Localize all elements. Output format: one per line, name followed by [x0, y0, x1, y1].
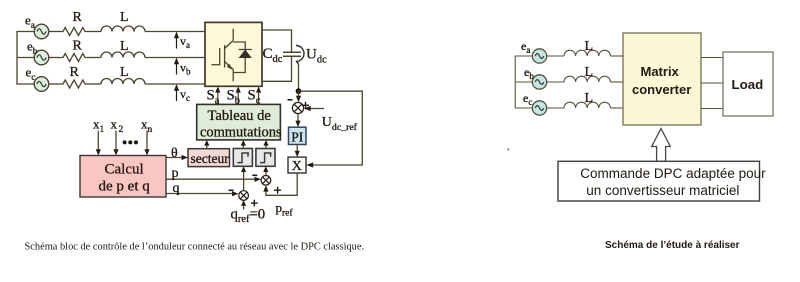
wire: Matrix to Load row c	[701, 108, 723, 110]
wire R to L (row c)	[88, 83, 101, 85]
wire L to inverter (row b)	[145, 57, 205, 59]
wire: secteur to Tableau	[206, 143, 208, 149]
resistor R (row b)	[60, 54, 88, 62]
svg-text:de p et q: de p et q	[99, 179, 151, 195]
inductor L row c (right)	[564, 102, 610, 108]
input x2 arrow	[115, 131, 117, 153]
svg-text:secteur: secteur	[191, 151, 230, 166]
secteur block	[188, 149, 230, 167]
wire: comparator1 to Tableau	[242, 143, 244, 149]
svg-text:L: L	[585, 91, 594, 106]
inductor L row b (right)	[564, 76, 610, 82]
wire q output of Calcul	[166, 193, 236, 195]
plus sign (q junction)	[251, 200, 258, 207]
ellipsis dots	[123, 140, 138, 144]
wire: junction to PI	[297, 114, 299, 125]
wire: Udc_ref input stub	[307, 108, 325, 110]
wire: q_ref input	[243, 203, 245, 210]
summing junction Udc	[292, 102, 303, 113]
svg-text:L: L	[585, 65, 594, 80]
source eb (right)	[532, 75, 546, 89]
plus sign (Udc junction)	[302, 102, 309, 109]
wire: left bus	[17, 32, 35, 85]
Matrix converter block	[623, 33, 701, 125]
svg-text:Tableau de: Tableau de	[208, 108, 271, 124]
wire: PI to X	[296, 145, 298, 155]
voltage arrow vc	[174, 84, 190, 103]
svg-text:p: p	[172, 166, 179, 181]
wire: DC+ rail	[262, 30, 292, 52]
wire R to L (row b)	[88, 57, 101, 59]
svg-text:Matrix: Matrix	[641, 64, 680, 79]
wire Sa arrow	[217, 89, 219, 104]
Calcul de p et q block	[80, 156, 166, 198]
wire: p junction up to comparator 2	[265, 169, 267, 175]
wire: right bus	[515, 56, 532, 108]
svg-text:X: X	[292, 159, 302, 174]
svg-text:Schéma de l’étude à réaliser: Schéma de l’étude à réaliser	[605, 240, 740, 251]
svg-text:un convertisseur matriciel: un convertisseur matriciel	[586, 183, 739, 198]
inductor L row a (right)	[564, 50, 610, 56]
svg-text:converter: converter	[632, 82, 691, 97]
input xn arrow	[146, 131, 148, 153]
wire L to inverter (row c)	[145, 83, 205, 85]
stray dot artifact	[507, 148, 509, 150]
wire theta to secteur	[166, 157, 185, 159]
source ea (right)	[532, 49, 546, 63]
minus sign (Udc junction)	[288, 99, 293, 101]
svg-text:Load: Load	[732, 77, 764, 92]
svg-text:L: L	[120, 65, 129, 80]
Commande DPC box	[558, 161, 766, 201]
inductor L (row c)	[101, 79, 145, 85]
antiparallel diode D1	[233, 42, 252, 73]
svg-text:R: R	[70, 65, 80, 80]
wire row a source to R	[48, 31, 60, 33]
svg-text:θ: θ	[171, 146, 178, 161]
PI block	[289, 127, 307, 144]
svg-text:Commande DPC adaptée pour: Commande DPC adaptée pour	[580, 166, 766, 181]
source ec	[34, 77, 49, 92]
svg-text:R: R	[73, 39, 83, 54]
svg-text:Calcul: Calcul	[105, 162, 144, 178]
inductor L (row b)	[101, 52, 145, 57]
voltage arrow va	[174, 32, 190, 51]
input x1 arrow	[97, 131, 99, 153]
wire: node to Udc summing junction	[298, 91, 300, 99]
Load block	[723, 52, 773, 116]
wire row b source to R	[48, 57, 60, 59]
source eb	[34, 50, 49, 65]
summing junction q	[239, 191, 249, 201]
resistor R (row a)	[60, 28, 88, 36]
wire: bus to eb	[17, 57, 35, 59]
svg-text:q: q	[173, 181, 180, 196]
wire b: L to Matrix	[610, 81, 623, 83]
plus sign (p junction)	[274, 187, 281, 194]
wire c: L to Matrix	[610, 107, 623, 109]
wire: q junction up to comparator 1	[243, 169, 245, 191]
minus sign (q junction)	[229, 189, 234, 191]
svg-text:L: L	[120, 10, 129, 25]
IGBT emitter arrowhead	[227, 64, 233, 70]
X block	[288, 157, 306, 173]
resistor R (row c)	[60, 80, 88, 88]
wire: Matrix to Load row a	[701, 57, 723, 59]
inverter block U1	[205, 22, 262, 86]
wire: Matrix to Load row b	[701, 82, 723, 84]
comparator 2 (hysteresis)	[256, 149, 275, 167]
wire: comparator2 to Tableau	[265, 143, 267, 149]
wire: bus to eb (right)	[515, 81, 532, 83]
voltage arc Udc	[296, 46, 304, 66]
svg-text:R: R	[73, 10, 83, 25]
wire: tap down to node	[298, 65, 300, 91]
minus sign (p junction)	[252, 174, 257, 176]
Tableau de commutations block	[197, 104, 282, 140]
wire Sc arrow	[258, 89, 260, 104]
inductor L (row a)	[101, 26, 145, 31]
wire: feedback to X block	[299, 91, 363, 165]
svg-text:PI: PI	[291, 129, 304, 144]
wire: X down to p junction	[266, 173, 297, 195]
node: DC measurement junction	[296, 88, 302, 94]
wire: DC- rail	[262, 56, 292, 81]
summing junction p	[261, 176, 271, 186]
svg-text:Schéma bloc de contrôle de l’o: Schéma bloc de contrôle de l’onduleur co…	[25, 242, 365, 253]
wire c: source to L (right)	[547, 107, 564, 109]
wire L to inverter (row a)	[145, 31, 205, 33]
comparator 1 (hysteresis)	[233, 149, 252, 167]
IGBT Q1	[212, 29, 234, 81]
wire R to L (row a)	[88, 31, 101, 33]
capacitor Cdc	[283, 52, 301, 56]
wire Sb arrow	[237, 89, 239, 104]
wire a: L to Matrix	[610, 55, 623, 57]
wire a: source to L (right)	[547, 55, 564, 57]
source ec (right)	[532, 101, 546, 115]
voltage arrow vb	[174, 58, 191, 77]
source ea	[34, 24, 49, 39]
svg-text:L: L	[120, 39, 129, 54]
wire b: source to L (right)	[547, 81, 564, 83]
wire p output of Calcul	[166, 178, 259, 180]
hollow arrow	[652, 129, 671, 162]
wire row c source to R	[48, 83, 60, 85]
svg-text:commutations: commutations	[200, 125, 282, 141]
svg-text:L: L	[585, 39, 594, 54]
